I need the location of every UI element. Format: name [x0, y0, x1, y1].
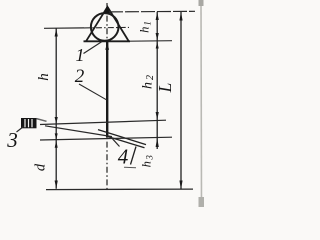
arrow h1 top (up) — [156, 12, 159, 20]
svg-text:d: d — [33, 163, 49, 171]
winch outlet line — [37, 119, 47, 122]
arrow h2 top (up) — [156, 42, 159, 49]
triangle base — [84, 40, 131, 42]
winch 3 body — [21, 118, 37, 128]
label h — [36, 73, 52, 81]
mast centerline (vertical dash-dot) — [106, 3, 108, 190]
svg-text:4: 4 — [118, 145, 129, 169]
arrow d bottom (down) — [55, 181, 58, 189]
triangle apex blob — [104, 5, 111, 13]
scan page edge right — [200, 0, 203, 207]
arrow L bottom (down) — [179, 181, 182, 190]
svg-text:L: L — [155, 83, 175, 94]
pile upper edge — [98, 130, 146, 145]
svg-text:h1: h1 — [138, 20, 153, 33]
leader 1 — [84, 42, 103, 54]
pulley axis horizontal centerline / h top extension — [44, 27, 84, 29]
label h3 — [140, 154, 155, 168]
svg-text:h3: h3 — [140, 154, 155, 168]
winch hatching slits — [24, 119, 26, 127]
label d — [33, 163, 49, 171]
top extension line — [109, 10, 195, 13]
svg-text:3: 3 — [6, 128, 18, 152]
arrow d top (up) — [55, 140, 58, 147]
dim line L — [180, 12, 182, 189]
small dash under labels — [124, 166, 136, 169]
leader 3 — [17, 127, 24, 133]
pile lower edge — [108, 137, 145, 148]
ground line — [40, 137, 172, 140]
arrow above ground (down) — [55, 133, 58, 139]
bottom extension line — [46, 188, 193, 191]
arrow h3 (up, below ground line) — [156, 138, 159, 147]
scan smudge bottom-right — [199, 197, 205, 207]
dim line h/d (left vertical) — [55, 29, 57, 189]
pulley support triangle — [86, 7, 129, 42]
arrow L top (up) — [179, 12, 182, 21]
scan smudge top-right — [199, 0, 204, 6]
svg-text:h2: h2 — [141, 73, 157, 89]
svg-text:h: h — [36, 73, 52, 81]
arrow h1 bottom (down) — [156, 33, 159, 41]
leader 4 slash — [131, 147, 137, 165]
arrow h top (up) — [55, 29, 58, 37]
dim line h1/h2/h3 (x=157) — [156, 12, 158, 149]
leader 4 — [113, 139, 120, 147]
svg-text:1: 1 — [76, 45, 85, 65]
mast — [106, 41, 108, 137]
winch rope diagonal — [45, 126, 112, 137]
label h1 — [138, 20, 153, 33]
arrow h bottom (down) — [55, 117, 58, 124]
cable from winch to mast (h bottom / h2 bottom extension) — [40, 120, 166, 124]
mast top arrow blob — [105, 42, 109, 50]
arrow h2 bottom (down) — [156, 112, 159, 120]
label h2 — [141, 73, 157, 89]
base extension right — [130, 40, 172, 43]
leader 2 — [79, 84, 107, 100]
pulley circle — [91, 13, 119, 41]
label L — [155, 83, 175, 94]
